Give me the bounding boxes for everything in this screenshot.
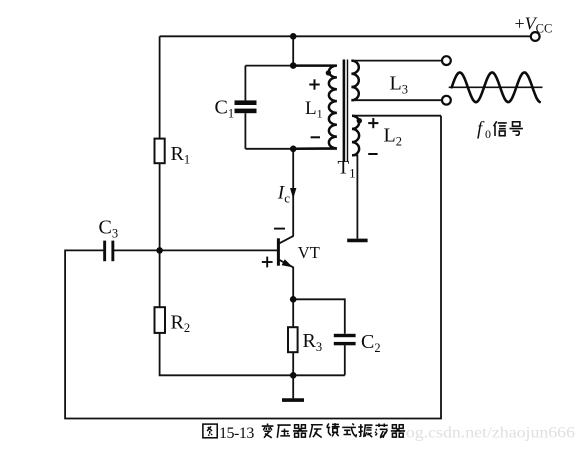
- wire left vertical R1/R2 branch: [159, 36, 161, 138]
- terminal L3 output top: [442, 56, 451, 65]
- svg-text:C3: C3: [99, 217, 119, 241]
- svg-text:T1: T1: [338, 158, 356, 181]
- wire C3 right lead: [114, 249, 160, 251]
- wire R2 bottom to emitter rail: [160, 333, 345, 375]
- caption char 振: [358, 424, 372, 437]
- svg-text:0: 0: [485, 127, 491, 141]
- label 号 of f0 signal: [509, 122, 522, 135]
- transformer T1 winding L3: [351, 61, 358, 101]
- transformer T1 winding L2: [352, 116, 359, 156]
- junction dot tank top: [290, 62, 297, 69]
- transformer T1 winding L1: [293, 66, 337, 149]
- caption char 器 second: [391, 425, 405, 437]
- junction dot emitter node: [290, 296, 297, 303]
- label polarity minus L2 bottom: [368, 153, 377, 155]
- sine wave axis: [449, 86, 543, 88]
- svg-text:blog.csdn.net/zhaojun666: blog.csdn.net/zhaojun666: [392, 423, 575, 442]
- resistor R2: [155, 307, 166, 333]
- svg-text:R1: R1: [171, 143, 191, 167]
- resistor R3: [288, 327, 298, 352]
- terminal +Vcc: [531, 32, 540, 41]
- svg-text:R2: R2: [171, 311, 191, 335]
- svg-text:C2: C2: [361, 331, 381, 355]
- label polarity minus L1 bottom: [311, 136, 320, 138]
- svg-text:c: c: [284, 190, 290, 205]
- junction dot base node: [156, 247, 163, 254]
- junction dot emitter rail ground node: [290, 372, 297, 379]
- wire collector vertical with Ic: [292, 149, 294, 236]
- svg-text:L3: L3: [390, 73, 408, 97]
- label polarity minus above VT base: [274, 228, 285, 230]
- transformer T1 core: [344, 60, 348, 163]
- transistor VT emitter arrowhead: [282, 259, 293, 267]
- wire C1 top lead: [244, 66, 246, 101]
- wire collector node vertical top: [292, 36, 294, 65]
- svg-text:L1: L1: [305, 98, 323, 121]
- wire top supply rail: [160, 35, 531, 37]
- svg-text:L2: L2: [384, 125, 402, 149]
- wire C2 bottom lead: [344, 345, 346, 375]
- sine wave f0: [452, 72, 540, 102]
- transformer T1 phase dot L1: [326, 70, 331, 75]
- caption char 馈: [327, 423, 340, 436]
- svg-text:f: f: [477, 119, 485, 140]
- wire L2 top lead: [352, 115, 441, 117]
- label 信 of f0 signal: [494, 121, 507, 136]
- svg-text:C1: C1: [215, 97, 235, 121]
- capacitor C2 plates: [334, 334, 356, 346]
- label polarity plus L2 top: [368, 118, 378, 128]
- junction dot top rail / collector branch: [290, 33, 297, 40]
- wire L3 bottom lead: [351, 99, 442, 101]
- transistor VT base bar: [277, 238, 280, 265]
- caption char 变: [262, 423, 274, 437]
- wire base wire: [160, 249, 278, 251]
- caption char 式: [342, 423, 356, 436]
- wire L3 top lead: [351, 60, 442, 62]
- label polarity plus below VT base: [262, 257, 273, 268]
- svg-text:VT: VT: [298, 243, 320, 262]
- label polarity plus L1 top: [309, 79, 319, 89]
- wire ground stub below emitter rail: [292, 375, 294, 398]
- ground below emitter rail: [282, 398, 304, 402]
- wire C1 bottom lead: [244, 113, 246, 149]
- wire C3 left lead and feedback loop left/bottom/right: [65, 116, 441, 419]
- transistor VT collector stroke: [279, 236, 294, 244]
- wire emitter vertical: [292, 267, 294, 300]
- junction dot tank bottom: [290, 146, 297, 153]
- transformer T1 phase dot L2: [357, 118, 362, 123]
- svg-text:15-13: 15-13: [219, 425, 254, 442]
- transistor VT emitter stroke: [279, 260, 294, 268]
- wire R3 top lead: [292, 299, 294, 327]
- capacitor C1 plates: [235, 100, 257, 113]
- ground below T1 winding L2: [347, 239, 367, 243]
- svg-text:R3: R3: [303, 330, 323, 354]
- wire emitter node to C2 top: [293, 299, 345, 334]
- wire R3 bottom lead: [292, 352, 294, 375]
- terminal L3 output bottom: [442, 96, 451, 105]
- wire tank top horizontal: [245, 65, 337, 67]
- wire R1 to base node: [159, 163, 161, 307]
- resistor R1: [155, 139, 165, 164]
- current arrow Ic on collector wire: [290, 188, 296, 199]
- wire tank bottom horizontal: [245, 148, 337, 150]
- svg-text:+VCC: +VCC: [515, 14, 553, 36]
- caption char 压: [277, 425, 290, 438]
- caption char 图: [203, 424, 217, 438]
- caption 图15-13 变压器反馈式振荡器: [203, 423, 405, 442]
- caption char 荡: [375, 423, 388, 437]
- wire L2 bottom to ground: [352, 155, 357, 238]
- capacitor C3 plates: [103, 241, 114, 262]
- caption char 反: [310, 425, 323, 438]
- caption char 器: [293, 425, 307, 437]
